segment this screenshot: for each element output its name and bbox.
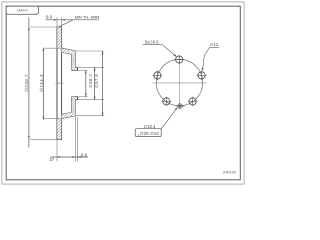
svg-text:8.6: 8.6	[81, 152, 88, 157]
dim 57.8 line	[85, 70, 87, 97]
ext 57.8 top	[78, 69, 88, 71]
hub hat outline	[62, 48, 78, 118]
svg-text:∅240.7: ∅240.7	[24, 74, 29, 92]
leader arrow d12	[202, 68, 204, 71]
bottom ext line mid (hub face)	[74, 116, 76, 161]
dim hub bracket arrows	[102, 51, 104, 54]
ext 240.7 top	[30, 26, 57, 28]
ext hub bracket top	[76, 50, 104, 52]
hatch bottom skirt	[62, 112, 76, 118]
dim 9.9 arrow left	[54, 19, 57, 21]
svg-text:∅10.4: ∅10.4	[144, 124, 156, 129]
dim 240.7 arrows	[28, 27, 30, 30]
ext 240.7 bottom	[30, 138, 57, 140]
svg-text:9.9: 9.9	[46, 14, 53, 19]
dim 154.4 arrows	[43, 48, 45, 51]
ext 68.2 top	[76, 66, 104, 68]
svg-text:5x∅6.8: 5x∅6.8	[145, 39, 160, 44]
dim 68.2 arrows	[94, 67, 96, 70]
main drawing frame	[6, 6, 240, 180]
hatch flange bottom	[72, 97, 76, 116]
leader 5xM6.8	[162, 44, 176, 56]
leader d12	[203, 48, 210, 71]
dim hub bracket line	[102, 51, 104, 116]
bottom ext line right (boss face)	[77, 117, 79, 162]
arrow 8.6	[78, 156, 81, 158]
hatch top skirt	[62, 48, 76, 54]
svg-text:37: 37	[49, 157, 54, 162]
arrow 37 right	[72, 156, 75, 158]
svg-text:⌞∅20 ∅12: ⌞∅20 ∅12	[138, 131, 160, 136]
svg-text:∅12: ∅12	[210, 42, 219, 47]
leader counterbore	[161, 108, 177, 130]
dim bottom line	[51, 156, 89, 158]
leader arrow 5xM6.8	[174, 54, 177, 57]
dim 9.9 ext lines	[57, 17, 62, 26]
vertical centerline	[179, 56, 181, 110]
bolt hole upper-right	[197, 71, 207, 81]
svg-text:∅68.2: ∅68.2	[88, 74, 93, 88]
dim 68.2 line	[94, 67, 96, 99]
svg-text:∅57.8: ∅57.8	[94, 74, 99, 88]
ext 154.4 bottom	[44, 117, 61, 119]
leader arrow counterbore	[175, 107, 178, 110]
bolt hole top	[174, 55, 184, 63]
ext 57.8 bottom	[78, 96, 88, 98]
dim 57.8 arrows	[85, 70, 87, 73]
ext 68.2 bottom	[76, 99, 104, 101]
underline 5xM6.8	[143, 43, 162, 45]
underline d12	[210, 46, 219, 48]
arrow 37 left	[57, 156, 60, 158]
outer page border	[2, 2, 244, 184]
leader MIN TH	[59, 20, 73, 27]
bolt hole lower-left	[162, 97, 172, 107]
dim 154.4 line	[42, 48, 44, 120]
ext 154.4 top	[44, 47, 61, 49]
dim 240.7 line	[28, 18, 30, 148]
dim 9.9 / label baseline	[46, 19, 99, 21]
title box	[6, 6, 38, 14]
svg-text:MIN TH. 8MM: MIN TH. 8MM	[75, 14, 100, 19]
counterbore box	[135, 129, 161, 137]
dim 9.9 arrow right	[62, 19, 65, 21]
svg-text:240190: 240190	[223, 170, 237, 175]
small hole bottom center	[176, 104, 184, 109]
bolt hole upper-left	[153, 71, 163, 81]
hatch disc ring top	[57, 27, 61, 48]
ext hub bracket bottom	[76, 115, 104, 117]
hatch disc ring bottom	[57, 118, 61, 139]
svg-text:∅154.4: ∅154.4	[39, 74, 44, 92]
bolt hole lower-right	[188, 97, 198, 107]
pitch circle	[156, 59, 202, 105]
disc bar (friction ring silhouette)	[57, 27, 62, 139]
bottom ext line left (37)	[56, 140, 58, 162]
hatch flange top	[72, 51, 76, 70]
svg-text:DIAI+C: DIAI+C	[17, 8, 29, 12]
section centerline dash	[56, 82, 64, 84]
horizontal centerline	[153, 82, 207, 84]
